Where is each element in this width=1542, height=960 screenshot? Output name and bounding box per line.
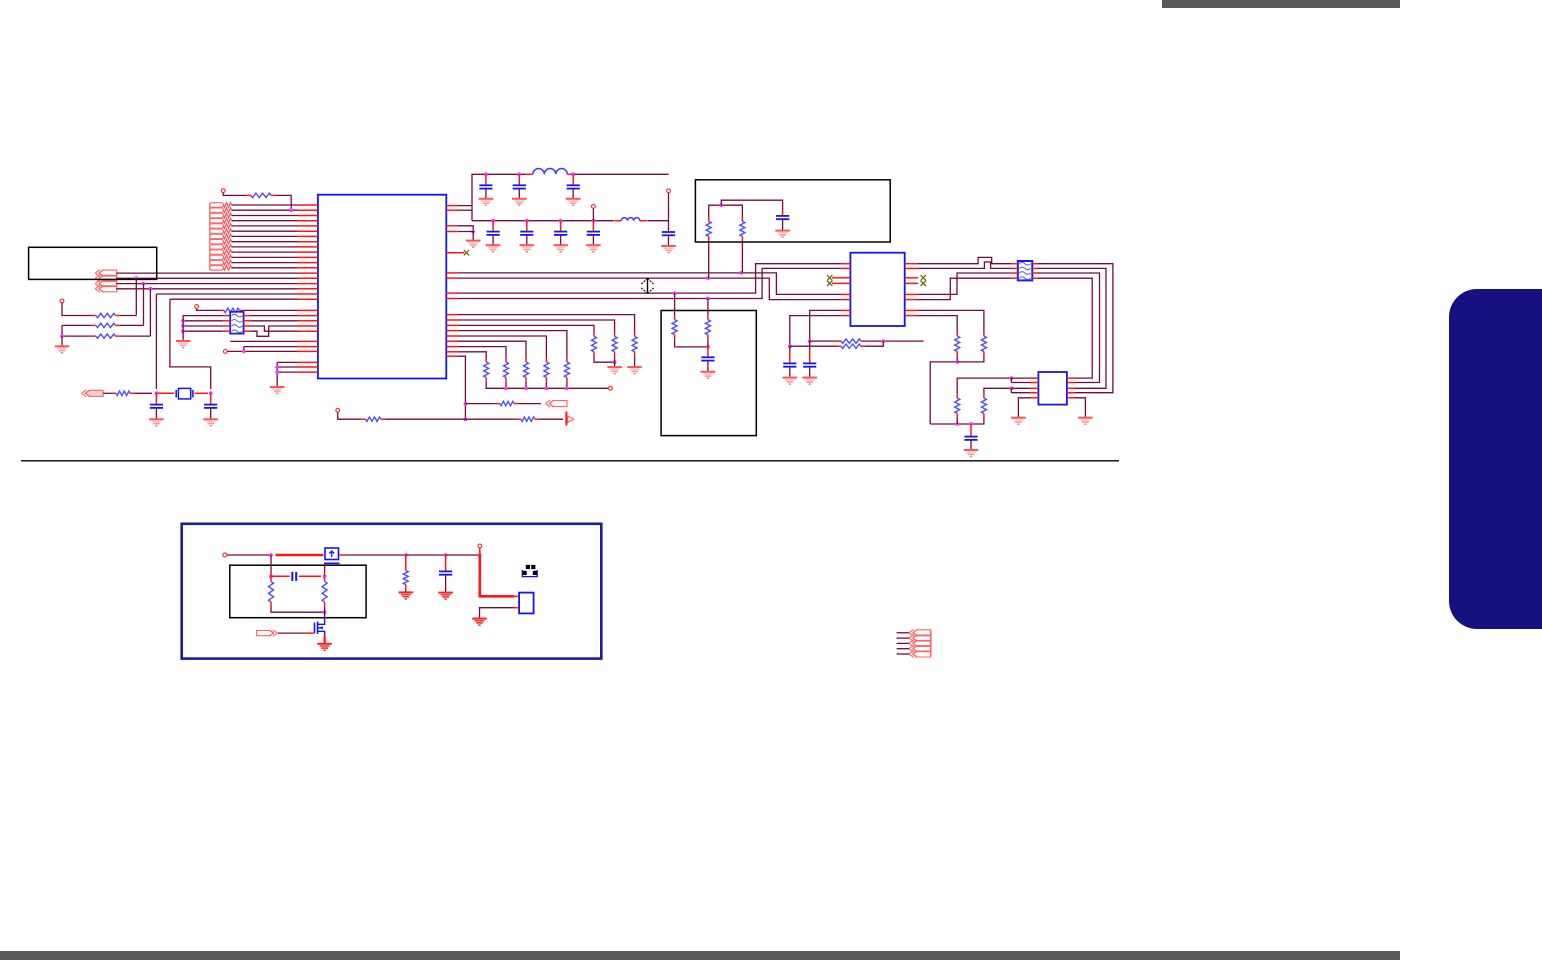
wire U2 pin5 to RN2: [918, 273, 1011, 294]
U1 left pin 5: [298, 225, 318, 227]
wire C14 to ground: [789, 367, 791, 378]
wire R9 to probe: [539, 418, 563, 420]
wire RB2 to bus D: [707, 299, 709, 316]
capacitor C5: [567, 185, 580, 188]
stub rail2 cap 4: [592, 221, 594, 232]
junction RB: [706, 345, 710, 349]
resistor R3: [91, 323, 120, 327]
junction rail1 cap 1: [484, 172, 488, 176]
wire stub B5: [897, 653, 909, 655]
transistor Q1 (P-FET): [324, 548, 340, 563]
resistor R6: [219, 308, 243, 312]
stub rail2 cap 3: [560, 221, 562, 232]
crystal X1: [176, 388, 193, 399]
wire fan pin14 to RG2: [458, 336, 546, 358]
stub rail2 cap 2: [526, 221, 528, 232]
wire pin2 to rail column: [458, 209, 472, 211]
wire stub B4: [897, 648, 909, 650]
capacitor C16: [439, 571, 452, 574]
wire riser R3: [143, 284, 145, 326]
IC U4 connector: [519, 593, 534, 614]
ground G14: [466, 241, 481, 248]
U1 right pin 15: [446, 340, 458, 342]
wire row 362 to U1: [277, 361, 297, 363]
wire R3 left: [62, 324, 91, 326]
capacitor C3: [479, 185, 492, 188]
stub X1 left: [158, 392, 174, 394]
terminal T9: [223, 553, 227, 557]
junction rail2 cap 3: [559, 219, 563, 223]
U1 left pin 14: [298, 272, 318, 274]
resistor pack RP1 element 1: [210, 203, 232, 208]
resistor R1: [246, 193, 275, 197]
wire RP1-7 to U1: [232, 235, 298, 237]
stub Q2 source: [324, 636, 326, 644]
U1 left pin 10: [298, 251, 318, 253]
wire RK2 top: [984, 388, 1011, 393]
U3 right pin 2: [1067, 382, 1075, 384]
loop wire row4: [1038, 278, 1092, 378]
U1 left pin 22: [298, 320, 318, 322]
resistor RJ2: [837, 344, 866, 348]
junction RK1 row: [1009, 376, 1013, 380]
wire C16 to ground: [445, 575, 447, 593]
junction Q1 gate node: [269, 553, 273, 557]
wire crystal riser2: [170, 299, 211, 389]
wire R8 to junction: [385, 418, 465, 420]
U3 right pin 4: [1067, 392, 1075, 394]
wire RN1 row3 left: [183, 325, 223, 327]
wire fan pin12 to RF3: [458, 325, 594, 332]
resistor RB1: [672, 315, 677, 339]
ground G7: [512, 199, 527, 206]
wire U3 right pin5 to ground: [1075, 398, 1085, 418]
U1 left pin 19: [298, 298, 318, 300]
wire U3 left pin4: [1011, 392, 1030, 394]
wire C15 to ground: [970, 440, 972, 450]
U2 right pin 1: [905, 263, 918, 265]
capacitor C8: [554, 232, 567, 235]
junction pin4: [471, 230, 475, 234]
RN2 row4 right stub: [1032, 277, 1038, 279]
capacitor C4: [513, 185, 526, 188]
U1 left pin 6: [298, 230, 318, 232]
ground G1: [55, 346, 70, 353]
wire C10 to ground: [668, 235, 670, 246]
terminal T6: [667, 189, 671, 193]
wire row 367 to U1: [277, 366, 297, 368]
ground G17: [607, 367, 622, 374]
wire U3 left pin1: [1011, 377, 1030, 379]
U1 left pin 12: [298, 262, 318, 264]
wire U2 pin6 to RN2: [918, 278, 1011, 299]
resistor RG3: [524, 358, 529, 382]
U1 left pin 3: [298, 215, 318, 217]
U2 right pin 6: [905, 299, 918, 301]
wire arrow A2 to U1: [116, 277, 297, 279]
stub cap C1: [155, 393, 157, 404]
U1 right pin 5 (no-connect): [446, 252, 464, 254]
resistor RF2: [612, 332, 617, 356]
wire RN1 row2 left: [183, 320, 223, 322]
resistor R2: [91, 313, 120, 317]
wire RT tops: [709, 205, 743, 221]
wire RN1 ground column: [182, 316, 184, 341]
U2 left pin 5: [841, 293, 850, 295]
wire U2 pin8 right: [918, 316, 957, 332]
RN1 element 2: [232, 320, 243, 323]
wire C13 to ground: [809, 367, 811, 378]
wire U3 left pin3: [1011, 387, 1030, 389]
ground G2: [149, 419, 164, 426]
wire C12 to ground: [707, 361, 709, 372]
U1 left pin 20: [298, 309, 318, 311]
wire stub B2: [897, 637, 909, 639]
ground G4: [176, 341, 191, 348]
wire C11 to ground: [782, 219, 784, 231]
harness connector arrow B3: [909, 640, 931, 647]
resistor RH1: [955, 332, 960, 357]
stub rail1 cap 1: [485, 174, 487, 185]
U1 left pin 1: [298, 204, 318, 206]
RN2 element 2: [1019, 267, 1030, 270]
U1 right pin 16: [446, 346, 458, 348]
resistor R7: [495, 401, 518, 405]
RN2 element 3: [1019, 272, 1030, 275]
terminal T4: [223, 350, 227, 354]
wire T5 to rail2: [592, 209, 594, 221]
bus RG bottoms: [486, 382, 608, 388]
RN1 row1 right stub: [244, 315, 251, 317]
RN2 row3 left stub: [1011, 272, 1018, 274]
U3 right pin 1: [1067, 377, 1075, 379]
U3 left pin 3: [1030, 387, 1038, 389]
U4 pin1 stub: [514, 595, 519, 597]
junction bend 419: [464, 417, 468, 421]
U1 left pin 18: [298, 293, 318, 295]
ground G15: [775, 231, 790, 238]
resistor pack RP2 element 4: [210, 260, 232, 265]
junction RG bus: [565, 386, 569, 390]
no-connect X U2 right pin4: [921, 281, 926, 286]
wire row 347 to U1: [244, 346, 298, 348]
wire pin4 join: [458, 232, 473, 241]
junction rail2 cap 2: [525, 219, 529, 223]
wire crystal riser X1 left: [155, 294, 157, 389]
wire C8 to ground: [560, 235, 562, 245]
junction RN1 left 3: [181, 329, 185, 333]
black box J1 (top-left): [29, 247, 157, 279]
wire rail2 right: [647, 220, 668, 222]
junction R10 node: [404, 553, 408, 557]
harness connector arrow B5: [909, 651, 931, 658]
RN1 element 3: [232, 325, 243, 328]
stub rail1 cap 3: [572, 174, 574, 185]
wire U2 pin1 hop to RN2: [918, 257, 1011, 263]
wire R3 right: [120, 324, 144, 326]
U2 left pin 2: [841, 267, 850, 269]
wire T9 to Q1: [227, 554, 271, 556]
resistor pack RP2 element 3: [210, 255, 232, 260]
wire row 341 to U1: [230, 340, 297, 342]
RN1 element 4: [232, 330, 243, 333]
wire Q1 to C16 node: [345, 554, 406, 556]
resistor pack RP1 element 8: [210, 239, 232, 244]
bus entry double arrow symbol: [641, 278, 653, 294]
U1 left pin 29: [298, 366, 318, 368]
wire riser R4: [149, 289, 151, 336]
junction A3/R3 riser: [142, 282, 146, 286]
terminal T2: [60, 299, 64, 303]
wire rail2 left: [472, 220, 614, 222]
U1 right pin 3: [446, 225, 458, 227]
wire RB bottoms: [675, 339, 708, 347]
bus D wire: [458, 268, 841, 298]
wire RP1-4 to U1: [232, 220, 298, 222]
stub C17 right: [299, 575, 321, 577]
layout icon: [522, 565, 537, 577]
U3 right pin 3: [1067, 387, 1075, 389]
wire U4 pin2 to ground: [480, 608, 514, 619]
wire RN1 row4 left: [183, 330, 223, 332]
RN2 row3 right stub: [1032, 272, 1038, 274]
top-right gray header bar: [1162, 0, 1400, 8]
U1 left pin 30: [298, 371, 318, 373]
stub C11: [782, 211, 784, 216]
stub R10: [405, 555, 407, 566]
resistor pack RP1 element 5: [210, 224, 232, 229]
resistor network RN1 box: [230, 312, 243, 334]
wire T4 to U1: [228, 350, 298, 352]
navy power section box: [182, 524, 602, 659]
wire to C16: [406, 554, 446, 556]
ground G26 (power): [438, 593, 453, 600]
horizontal separator line: [21, 460, 1119, 462]
wire U3 left pin2: [1011, 382, 1030, 384]
wire RP1-2 to U1: [232, 209, 298, 211]
junction RT top: [719, 203, 723, 207]
stub C17 left2: [271, 575, 290, 577]
junction C16 node: [444, 553, 448, 557]
ground G22: [1011, 418, 1026, 425]
wire riser R2: [135, 278, 137, 315]
junction bus B / RT1: [706, 276, 710, 280]
inductor L2: [614, 218, 647, 221]
wire RP2-4 to U1: [232, 262, 298, 264]
capacitor C6: [487, 232, 500, 235]
wire U2 pin7 left: [810, 310, 841, 341]
U1 left pin 21: [298, 315, 318, 317]
resistor pack RP2 element 1: [210, 245, 232, 250]
ground G3: [203, 419, 218, 426]
junction RJ2: [788, 344, 792, 348]
junction rail1 cap 3: [571, 172, 575, 176]
junction RG bus: [545, 386, 549, 390]
RN2 row2 left stub: [1011, 267, 1018, 269]
U1 right pin 18: [446, 355, 458, 357]
wire rows D column: [276, 362, 278, 387]
wire C7 to ground: [526, 235, 528, 245]
wire C9 to ground: [592, 235, 594, 245]
wire RN1 row2 to U1: [251, 320, 298, 322]
junction rail2 cap 4: [592, 219, 596, 223]
wire RP2-1 to U1: [232, 246, 298, 248]
wire RJ2 row: [790, 345, 837, 347]
ground G23: [1078, 418, 1093, 425]
resistor R11: [269, 577, 274, 606]
bus A wire: [458, 273, 841, 295]
resistor pack RP1 element 6: [210, 229, 232, 234]
U1 left pin 26: [298, 346, 318, 348]
junction bend 403: [464, 402, 468, 406]
wire junction to R9: [465, 418, 516, 420]
U3 right pin 5: [1067, 397, 1075, 399]
junction RG bus: [504, 386, 508, 390]
wire RJ1 row: [810, 340, 837, 342]
harness arrow A7 (enable): [257, 630, 278, 636]
junction RJ1: [808, 339, 812, 343]
U1 left pin 8: [298, 241, 318, 243]
harness connector arrow B2: [909, 635, 931, 642]
U1 left pin 25: [298, 340, 318, 342]
wire R7 to arrow: [519, 403, 542, 405]
wire fan pin15 to RG3: [458, 341, 526, 357]
wire RP1-3 to U1: [232, 215, 298, 217]
wire to R7: [465, 403, 495, 405]
capacitor C17 (horizontal): [292, 572, 296, 581]
wire RG bottom drop: [525, 382, 527, 388]
resistor RG5: [484, 358, 489, 382]
wire RP1-5 to U1: [232, 225, 298, 227]
RN2 row2 right stub: [1032, 267, 1038, 269]
wire T2 column to ground: [61, 336, 63, 346]
wire RN1 row4 crossover to U1: [251, 326, 298, 336]
U1 right pin 2: [446, 209, 458, 211]
wire RG bottom drop: [566, 382, 568, 388]
junction RH bottom: [955, 360, 959, 364]
U1 right pin 17: [446, 351, 458, 353]
wire R4 left: [62, 325, 91, 336]
U2 right pin 7: [905, 309, 918, 311]
junction A2/R2 riser: [134, 276, 138, 280]
stub Q1 right: [340, 554, 346, 556]
junction RK2 row: [1009, 386, 1013, 390]
stub U2 left pin4: [832, 282, 841, 284]
harness connector arrow A4: [95, 285, 117, 292]
wire arrow A3 to U1: [116, 283, 297, 285]
RN1 row4 left stub: [223, 330, 230, 332]
junction rail1 cap 2: [517, 172, 521, 176]
stub fbR: [324, 573, 326, 576]
stub rail1 cap 2: [518, 174, 520, 185]
wire U3 pin5 to ground: [1018, 398, 1030, 418]
black box region 2 (top right): [695, 180, 890, 242]
terminal T1: [221, 189, 225, 193]
U2 right pin 8: [905, 315, 918, 317]
wire R2 right: [120, 315, 136, 317]
wire U2 pin7 right: [918, 310, 984, 331]
stub C12: [707, 339, 709, 347]
wire fan pin10 to RF1: [458, 315, 635, 332]
wire RH2 bottom: [957, 356, 984, 362]
wire RH bottoms: [930, 356, 957, 424]
ground G5: [270, 387, 285, 394]
inductor L1: [526, 169, 575, 175]
U1 left pin 16: [298, 283, 318, 285]
resistor R9: [516, 417, 539, 421]
no-connect X U2 left pin3: [827, 275, 832, 280]
ground G9: [486, 245, 501, 252]
U1 right pin 13: [446, 330, 458, 332]
RN1 row2 right stub: [244, 320, 251, 322]
capacitor C7: [520, 232, 533, 235]
U2 left pin 4: [841, 282, 850, 284]
junction RN1 left 1: [181, 319, 185, 323]
bus B wire: [458, 278, 841, 300]
U1 right pin 14: [446, 335, 458, 337]
wire fan pin11 to RF2: [458, 320, 615, 332]
harness connector arrow B1: [909, 629, 931, 636]
junction T4 row: [242, 350, 246, 354]
wire U1 row19 to crystal riser2: [170, 298, 298, 300]
wire A7 to Q2 gate: [278, 632, 307, 634]
wire RN1 row1 to U1: [251, 315, 298, 317]
resistor pack RP1 element 4: [210, 218, 232, 223]
U1 right pin 12: [446, 324, 458, 326]
wire R12 bottom: [324, 606, 326, 618]
junction fb bottom: [323, 610, 327, 614]
wire R10 to ground: [405, 589, 407, 592]
wire T8 down: [338, 413, 361, 420]
resistor pack RP1 element 2: [210, 208, 232, 213]
wire RK1 bottom drop: [956, 418, 958, 424]
ground G8: [566, 199, 581, 206]
stub cap C2: [210, 393, 212, 404]
stub C15: [970, 424, 972, 437]
U2 left pin 7: [841, 309, 850, 311]
wire stub B3: [897, 642, 909, 644]
wire fan pin16 to RG4: [458, 347, 506, 358]
loop wire row2: [1038, 268, 1106, 388]
wire RF1 to ground: [634, 356, 636, 367]
stub X1 right: [195, 392, 209, 394]
wire row 372 to U1: [277, 371, 297, 373]
wire RF3 bottom join: [594, 356, 615, 362]
wire RJ1 to join: [866, 340, 924, 342]
ground G16: [701, 372, 716, 379]
U1 left pin 4: [298, 220, 318, 222]
stub C16: [445, 555, 447, 571]
RN1 row4 right stub: [244, 330, 251, 332]
junction R1/row2: [289, 208, 293, 212]
U1 right pin 10: [446, 314, 458, 316]
bus C wire: [458, 264, 841, 293]
resistor R10: [403, 566, 408, 589]
U2 right pin 2: [905, 267, 918, 269]
junction A4/R4 riser: [149, 287, 153, 291]
U2 right pin 4: [905, 282, 918, 284]
wire row 347 drop: [243, 347, 245, 352]
capacitor C2: [204, 405, 217, 408]
wire R1 to U1 row2: [276, 195, 292, 210]
wire fan pin13 to RG1: [458, 331, 567, 358]
resistor RT2: [740, 217, 745, 241]
junction RF2 bottom: [613, 360, 617, 364]
wire Q1 drain down: [324, 563, 326, 573]
stub U2 left pin3: [832, 277, 841, 279]
junction rail2 cap 1: [491, 219, 495, 223]
harness connector arrow A2: [95, 275, 117, 282]
